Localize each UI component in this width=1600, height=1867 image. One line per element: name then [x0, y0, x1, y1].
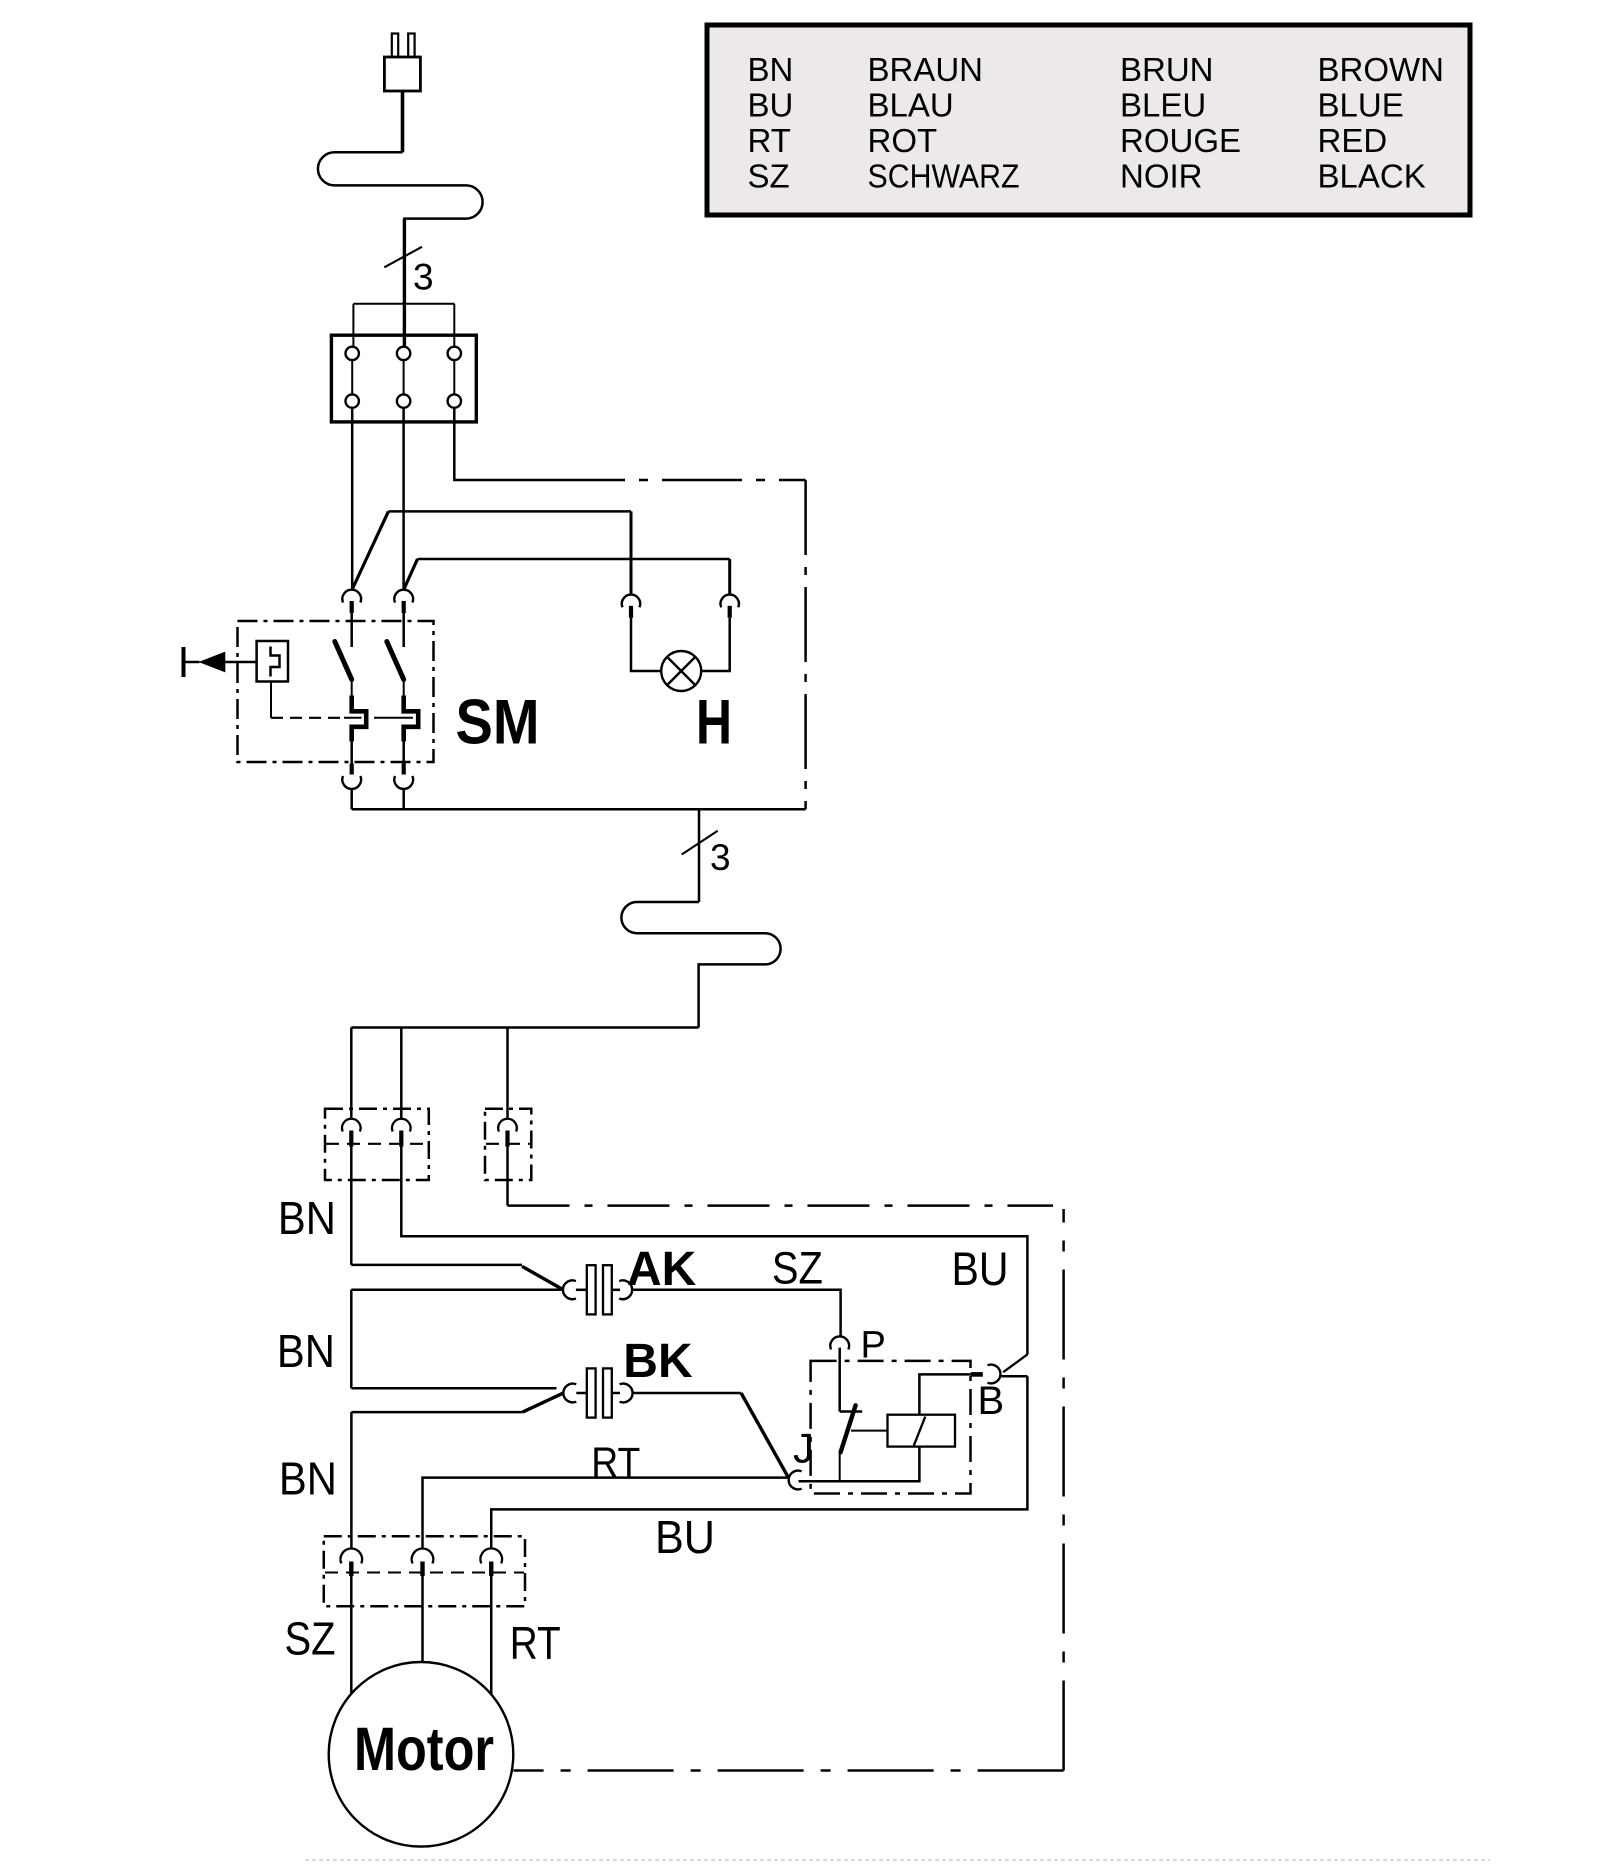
wire BU right edge lower [491, 1376, 1027, 1548]
switch SM pole 2 output pin [402, 764, 406, 775]
3-conductor slash mark 2 [682, 831, 718, 855]
wire RT [423, 1478, 789, 1549]
svg-text:BN: BN [279, 1453, 337, 1505]
capacitor AK left lead [576, 1289, 587, 1292]
connector cup J [789, 1471, 802, 1490]
wire RT to motor [490, 1575, 493, 1698]
wire BN segment 2 top [351, 1289, 562, 1292]
svg-text:RT: RT [591, 1438, 640, 1485]
svg-text:BLEU: BLEU [1120, 87, 1206, 124]
wire H right lead [701, 618, 730, 671]
switch SM pole 2 latch [404, 696, 419, 742]
pin into B from coil [971, 1372, 983, 1377]
terminal X1 pole 1 link [351, 360, 353, 394]
wire coil to B [919, 1374, 970, 1414]
wire distribution header [351, 1026, 698, 1029]
wire blade to coil [851, 1430, 888, 1432]
pin into BK [523, 1393, 563, 1412]
svg-text:J: J [793, 1425, 814, 1472]
wire J to coil bottom [799, 1447, 920, 1482]
mechanical link dashed [271, 717, 341, 719]
wire BU dash-dot top run [508, 1204, 1054, 1207]
connector cup B [988, 1365, 1001, 1384]
terminal block X1 body [331, 335, 476, 422]
switch SM pole 2 lower lead [402, 742, 405, 764]
switch SM pole 2 input pin [402, 601, 406, 613]
switch SM pole 1 output pin [350, 764, 354, 775]
svg-text:3: 3 [710, 837, 731, 878]
wire H left lead [631, 618, 661, 671]
capacitor BK plates [587, 1368, 612, 1417]
svg-text:SZ: SZ [285, 1613, 336, 1665]
pressure switch pivot lead [839, 1452, 841, 1482]
switch SM pole 2 blade [387, 642, 404, 680]
capacitor BK right cup [620, 1384, 633, 1403]
connector X3 cup 2 [412, 1549, 434, 1564]
svg-text:BN: BN [277, 1325, 335, 1377]
connector X2b cup [498, 1119, 517, 1132]
svg-text:RT: RT [748, 122, 791, 159]
connector cup H right [721, 595, 739, 608]
capacitor BK left lead [576, 1392, 587, 1395]
wire BN segment 1 [350, 1147, 353, 1265]
branch wire pole1 diagonal [352, 511, 388, 589]
wire drop 2 [400, 1028, 403, 1119]
terminal X1 pole 3 contacts [448, 347, 461, 408]
wire BK feed top [351, 1387, 556, 1390]
switch SM pole 1 input cup [342, 590, 361, 603]
switch SM pole 2 output cup [394, 776, 413, 789]
svg-text:BN: BN [278, 1192, 336, 1244]
connector X2a pin 2 [399, 1131, 403, 1147]
wire L3 X1 to enclosure corner [454, 408, 545, 480]
svg-text:BRAUN: BRAUN [868, 51, 984, 88]
mains plug P1 body [384, 57, 420, 91]
cable coil (supply cord) [318, 152, 483, 255]
svg-text:SZ: SZ [748, 158, 790, 195]
switch SM pole 1 blade [335, 642, 352, 680]
pin into B from line [1003, 1354, 1027, 1372]
switch SM pole 2 input cup [394, 590, 413, 603]
svg-text:ROT: ROT [868, 122, 938, 159]
switch SM pole 1 lower lead [350, 742, 353, 764]
capacitor AK plates [587, 1265, 612, 1314]
connector X3 pin 2 [420, 1562, 424, 1577]
switch SM pole 2 output stub [402, 789, 405, 809]
wire BU dash-dot right edge [1062, 1209, 1065, 1771]
svg-text:BN: BN [748, 51, 794, 88]
svg-text:B: B [978, 1379, 1005, 1423]
wire B to right edge [1001, 1375, 1027, 1378]
output bus wire [352, 808, 806, 811]
connector X2a pin 1 [349, 1131, 353, 1147]
wire BU drop solid [506, 1147, 509, 1206]
thermal release box [257, 641, 288, 682]
svg-text:BLUE: BLUE [1318, 87, 1404, 124]
branch wire pole1 to lamp H [388, 510, 631, 513]
connector cup H left [622, 595, 640, 608]
capacitor AK right lead [612, 1289, 620, 1292]
wire drop BN [350, 1028, 353, 1119]
svg-text:RED: RED [1318, 122, 1388, 159]
switch SM pole 2 blade link [403, 680, 405, 696]
motor M1 body [329, 1662, 514, 1847]
actuator shaft left [184, 661, 200, 664]
mechanical link vertical [270, 682, 272, 718]
wire L1 X1 to SM pin [351, 408, 354, 589]
solenoid coil K1 [888, 1415, 956, 1447]
svg-text:BLAU: BLAU [868, 87, 954, 124]
wire BU top run [401, 1147, 1027, 1355]
svg-text:Motor: Motor [354, 1715, 494, 1783]
connector X2b dash-dot box [485, 1109, 531, 1180]
svg-text:NOIR: NOIR [1120, 158, 1203, 195]
bridge wire over X1 [353, 304, 454, 347]
3-conductor slash mark [384, 247, 422, 267]
capacitor AK right cup [619, 1280, 632, 1299]
pin P into pressure switch [838, 1348, 841, 1412]
connector X3 mid line [325, 1571, 524, 1573]
mains plug P1 prongs [392, 34, 415, 58]
connector X3 pin 1 [349, 1562, 353, 1577]
terminal X1 pole 3 link [453, 360, 455, 394]
wire SZ (AK to P) [632, 1290, 840, 1336]
connector X2b mid line [486, 1143, 530, 1145]
connector cup P [830, 1336, 849, 1349]
svg-text:BROWN: BROWN [1318, 51, 1445, 88]
thermal release glyph [271, 647, 280, 677]
legend row BU [748, 87, 1404, 124]
wire AK feed [351, 1264, 522, 1267]
svg-text:RT: RT [510, 1617, 561, 1669]
connector X3 pin 3 [489, 1562, 493, 1577]
wire L2 X1 to SM pin [402, 408, 405, 589]
connector X2a mid line [326, 1143, 428, 1145]
switch SM pole 1 input pin [350, 601, 354, 613]
svg-text:SCHWARZ: SCHWARZ [868, 158, 1020, 195]
legend box frame [707, 25, 1470, 215]
connector pin H left [629, 606, 633, 618]
branch wire pole2 diagonal [404, 559, 418, 589]
legend row RT [748, 122, 1388, 159]
wire BN segment 2 [350, 1290, 353, 1389]
link line through latches [344, 717, 413, 719]
branch wire pole2 drop [728, 559, 731, 594]
wire cable to terminal block X1 [403, 219, 406, 347]
connector pin H right [728, 606, 732, 618]
terminal X1 pole 1 contacts [346, 347, 359, 408]
wire BK to J [633, 1392, 742, 1394]
wire SZ to motor [350, 1575, 353, 1695]
enclosure boundary top (dash-dot) [545, 479, 806, 482]
pressure switch blade [841, 1405, 856, 1452]
switch SM pole 1 blade link [351, 680, 353, 696]
capacitor BK right lead [612, 1392, 620, 1395]
capacitor AK left cup [563, 1280, 576, 1299]
actuator arrow head [199, 652, 226, 673]
actuator shaft right [225, 661, 256, 664]
connector X2a cup 2 [392, 1119, 411, 1132]
connector X2a dash-dot box [325, 1109, 429, 1180]
switch SM pole 2 stub [402, 613, 405, 647]
terminal X1 pole 2 link [403, 360, 405, 394]
pressure switch dash-dot box [811, 1361, 971, 1494]
svg-text:BK: BK [623, 1335, 693, 1388]
fixed contact bar P [840, 1410, 863, 1413]
svg-text:AK: AK [627, 1243, 697, 1296]
wire drop BU [506, 1028, 509, 1119]
wire plug to cable coil [401, 91, 405, 152]
branch wire pole2 to lamp H [418, 558, 730, 561]
svg-text:BU: BU [952, 1242, 1009, 1295]
switch SM dash-dot box [238, 621, 434, 762]
connector X3 dash-dot box [324, 1536, 525, 1606]
switch SM pole 1 output cup [342, 776, 361, 789]
wire BU dash-dot bottom run [514, 1769, 1064, 1772]
actuator end bar [182, 647, 186, 677]
wire mid to motor [421, 1575, 424, 1663]
switch SM pole 1 stub [350, 613, 353, 647]
wire BN segment 3 [350, 1412, 353, 1548]
lamp H symbol [661, 651, 701, 691]
legend row BN [748, 51, 1445, 88]
svg-text:BU: BU [655, 1511, 715, 1563]
svg-text:BRUN: BRUN [1120, 51, 1214, 88]
svg-text:SM: SM [456, 687, 540, 757]
connector X2a cup 1 [342, 1119, 361, 1132]
branch wire pole1 drop [630, 511, 633, 594]
capacitor BK left cup [563, 1384, 576, 1403]
pin into AK [522, 1266, 563, 1289]
wire bus to coil 2 [698, 809, 701, 902]
terminal X1 pole 2 contacts [397, 347, 410, 408]
wire BK feed bottom [351, 1411, 522, 1414]
switch SM pole 1 latch [352, 696, 367, 742]
svg-text:ROUGE: ROUGE [1120, 122, 1241, 159]
page edge artifact [305, 1859, 1490, 1861]
connector X2b pin [505, 1131, 509, 1147]
legend row SZ [748, 158, 1426, 195]
svg-text:BLACK: BLACK [1318, 158, 1426, 195]
svg-text:H: H [696, 687, 732, 757]
svg-text:SZ: SZ [772, 1242, 823, 1293]
connector X3 cup 3 [480, 1548, 502, 1563]
svg-text:BU: BU [748, 87, 794, 124]
svg-text:3: 3 [413, 257, 434, 298]
cable coil 2 [621, 902, 780, 1028]
connector X3 cup 1 [341, 1549, 363, 1564]
enclosure boundary right (dash-dot) [804, 480, 807, 809]
switch SM pole 1 output stub [350, 789, 353, 809]
